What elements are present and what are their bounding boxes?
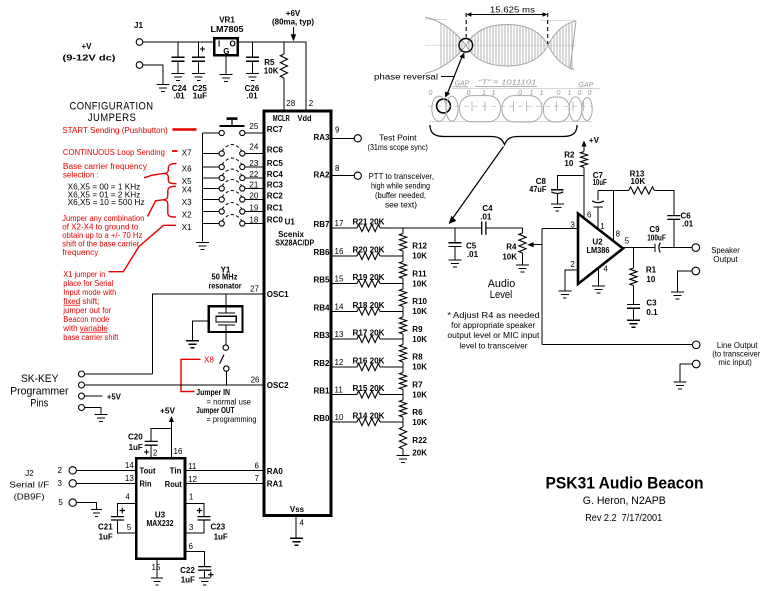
svg-text:base carrier shift: base carrier shift: [63, 333, 119, 342]
svg-text:1uF: 1uF: [181, 576, 195, 585]
wire R4 wiper to U2 and line out: [542, 229, 578, 345]
svg-text:resonator: resonator: [209, 282, 242, 291]
svg-text:(80ma, typ): (80ma, typ): [272, 18, 314, 27]
svg-text:21: 21: [249, 180, 258, 189]
svg-text:with variable: with variable: [62, 324, 108, 333]
svg-text:1uF: 1uF: [214, 533, 228, 542]
svg-text:(9-12V dc): (9-12V dc): [63, 54, 116, 63]
wire J1 return: [143, 65, 163, 84]
node J2 pin 3: [58, 479, 137, 488]
svg-text:3: 3: [189, 523, 194, 532]
node SK-KEY pin 4 (gnd): [79, 405, 101, 415]
svg-text:.01: .01: [174, 92, 186, 101]
svg-text:R17 20K: R17 20K: [353, 329, 385, 338]
svg-text:SX28AC/DP: SX28AC/DP: [275, 238, 315, 247]
capacitor C5: [449, 228, 479, 260]
svg-text:PSK31 Audio Beacon: PSK31 Audio Beacon: [546, 473, 704, 492]
svg-text:high while sending: high while sending: [371, 182, 430, 191]
svg-text:C5: C5: [466, 241, 477, 250]
wire red leader to selection text: [144, 173, 164, 177]
svg-text:RC5: RC5: [267, 159, 284, 168]
jumper row 18 wires and pads: [203, 215, 264, 227]
svg-text:X6,X5 = 10 = 500 Hz: X6,X5 = 10 = 500 Hz: [68, 198, 145, 207]
ground: [449, 260, 462, 267]
svg-text:+V: +V: [81, 42, 92, 51]
resistor R19 20K: [331, 273, 403, 287]
svg-text:10K: 10K: [412, 335, 427, 344]
svg-text:R10: R10: [412, 297, 427, 306]
resistor R9 10K: [399, 312, 427, 344]
svg-text:START Sending (Pushbutton): START Sending (Pushbutton): [62, 126, 168, 135]
wire red brace X6-X5: [164, 164, 177, 184]
resistor R16 20K: [331, 357, 403, 371]
svg-text:15: 15: [152, 563, 161, 572]
wire red brace X4-X3-X2: [163, 186, 176, 217]
svg-text:LM7805: LM7805: [211, 25, 245, 34]
svg-text:1uF: 1uF: [193, 92, 207, 101]
jumper X8: [220, 332, 229, 385]
U2 pin 8 wire: [613, 190, 620, 241]
node Speaker Output: [692, 244, 740, 264]
svg-text:50 MHz: 50 MHz: [212, 273, 238, 282]
svg-text:11: 11: [188, 462, 197, 471]
svg-text:G. Heron, N2APB: G. Heron, N2APB: [583, 495, 666, 507]
svg-text:RA0: RA0: [267, 467, 284, 476]
svg-text:10K: 10K: [412, 390, 427, 399]
op-amp U2 LM386: [578, 214, 623, 285]
svg-text:X7: X7: [182, 149, 192, 158]
svg-text:Serial I/F: Serial I/F: [9, 481, 49, 490]
svg-text:25: 25: [249, 122, 258, 131]
svg-text:C20: C20: [128, 433, 143, 442]
capacitor C7 10uF (pin 1 to pin 8): [592, 171, 607, 231]
svg-text:+5V: +5V: [160, 407, 176, 416]
svg-text:RA3: RA3: [313, 133, 330, 142]
jumper row 23 wires and pads: [203, 158, 264, 170]
svg-text:U1: U1: [285, 217, 296, 226]
svg-text:+5V: +5V: [107, 392, 122, 401]
svg-text:RB1: RB1: [313, 387, 330, 396]
U3 chip name label: [147, 511, 174, 528]
jumper row 24 wires and pads: [203, 145, 264, 157]
U1 chip name label: [275, 217, 315, 247]
svg-text:15: 15: [335, 275, 344, 284]
svg-text:Jumper any combination: Jumper any combination: [62, 214, 144, 223]
potentiometer R4 10K (Audio Level): [502, 228, 542, 265]
svg-text:2: 2: [58, 466, 63, 475]
resistor R5: [264, 42, 288, 111]
svg-text:1uF: 1uF: [129, 443, 143, 452]
svg-text:Tin: Tin: [170, 467, 182, 476]
svg-text:Beacon mode: Beacon mode: [63, 315, 110, 324]
SK-KEY header label: [10, 373, 69, 410]
capacitor C8 47uF: [529, 175, 584, 204]
ground: [558, 291, 571, 298]
ground: [186, 341, 199, 348]
svg-text:10K: 10K: [412, 307, 427, 316]
svg-text:RB0: RB0: [313, 414, 330, 423]
svg-text:J2: J2: [25, 469, 34, 478]
svg-text:1: 1: [540, 90, 544, 97]
svg-text:LM386: LM386: [587, 246, 611, 255]
svg-text:9: 9: [335, 126, 340, 135]
resistor R14 20K: [331, 412, 403, 426]
svg-text:(buffer needed,: (buffer needed,: [375, 191, 426, 200]
node J2 pin 5: [58, 498, 96, 509]
ground: [551, 204, 564, 211]
wire Line Output net: [542, 344, 692, 346]
resistor R22 20K: [399, 422, 427, 458]
svg-text:Test Point: Test Point: [379, 134, 417, 143]
jumper row 22 wires and pads: [203, 169, 264, 181]
wire red X7 leader: [172, 150, 178, 152]
svg-text:C23: C23: [211, 523, 226, 532]
svg-text:(DB9F): (DB9F): [14, 492, 45, 501]
jumper row 19 wires and pads: [203, 203, 264, 215]
svg-text:X3: X3: [182, 198, 192, 207]
node +6V supply arrow: [272, 9, 314, 41]
jumper row 20 wires and pads: [203, 191, 264, 203]
svg-text:MAX232: MAX232: [147, 519, 174, 528]
svg-text:13: 13: [335, 330, 344, 339]
svg-text:28: 28: [286, 99, 295, 108]
svg-text:10K: 10K: [412, 363, 427, 372]
U3 pin 13 (Rin): [125, 474, 152, 488]
svg-text:13: 13: [125, 474, 134, 483]
svg-text:Tout: Tout: [140, 467, 156, 476]
svg-text:R5: R5: [264, 58, 275, 67]
resistor R6 10K: [399, 395, 427, 427]
jumper row 25 wires and pads: [203, 130, 264, 135]
wire red leader to jumper-any text: [148, 200, 163, 217]
svg-text:2: 2: [153, 449, 158, 458]
svg-text:RC2: RC2: [267, 192, 284, 201]
ground: [199, 578, 211, 585]
resistor R10 10K: [399, 284, 427, 317]
svg-text:26: 26: [251, 375, 260, 384]
svg-text:PTT to transceiver,: PTT to transceiver,: [369, 172, 434, 181]
svg-text:R18 20K: R18 20K: [353, 301, 385, 310]
svg-text:RA1: RA1: [267, 480, 284, 489]
svg-text:14: 14: [125, 461, 134, 470]
svg-text:R15 20K: R15 20K: [353, 384, 385, 393]
annotation jumper in/out note: [196, 388, 256, 424]
ground: [94, 415, 107, 422]
svg-text:place for Serial: place for Serial: [63, 279, 113, 288]
svg-text:RB3: RB3: [313, 331, 330, 340]
ground: [290, 538, 303, 545]
svg-text:6: 6: [587, 211, 592, 220]
svg-text:.01: .01: [480, 213, 492, 222]
node +5V supply for U3: [160, 407, 176, 459]
svg-text:for appropriate speaker: for appropriate speaker: [451, 321, 535, 330]
svg-text:12: 12: [335, 358, 344, 367]
ground: [516, 265, 529, 272]
svg-text:X6: X6: [182, 164, 192, 173]
svg-text:R1: R1: [646, 265, 657, 274]
svg-text:12: 12: [188, 475, 197, 484]
wire OSC1 net: [152, 294, 264, 374]
svg-text:RA2: RA2: [313, 170, 330, 179]
wire +V rail: [143, 42, 306, 111]
capacitor C25: [192, 42, 207, 101]
resistor R2 10 and +V feed (pin 6): [564, 136, 599, 220]
connector J1: [134, 21, 143, 68]
svg-text:jumper out for: jumper out for: [62, 306, 111, 315]
svg-text:2: 2: [309, 99, 314, 108]
capacitor C4 (series): [480, 204, 522, 235]
svg-text:VR1: VR1: [219, 16, 235, 25]
svg-text:Rev 2.2 7/17/2001: Rev 2.2 7/17/2001: [585, 512, 662, 524]
svg-text:Jumper IN: Jumper IN: [196, 388, 230, 397]
svg-text:JUMPERS: JUMPERS: [88, 112, 137, 124]
svg-text:4: 4: [300, 519, 305, 528]
svg-text:Vss: Vss: [290, 505, 305, 514]
svg-text:19: 19: [249, 203, 258, 212]
svg-text:C21: C21: [98, 523, 113, 532]
resistor R15 20K: [331, 384, 403, 398]
PSK31 waveform sketch image: [374, 5, 600, 224]
ground: [397, 456, 410, 463]
title PSK31 Audio Beacon: [546, 473, 704, 524]
ground: [91, 510, 102, 517]
resistor R20 20K: [331, 246, 403, 260]
pushbutton START switch: [220, 119, 245, 126]
U3 pin 11 (Tin) wire to U1 RA0: [170, 462, 264, 476]
annotation X1 jumper note: [62, 270, 119, 342]
svg-text:18: 18: [249, 215, 258, 224]
ground: [220, 75, 233, 82]
svg-text:.01: .01: [467, 250, 479, 259]
capacitor C26: [245, 42, 260, 101]
svg-text:SK-KEY: SK-KEY: [21, 373, 59, 385]
svg-text:mic input): mic input): [718, 358, 752, 367]
svg-text:X2: X2: [182, 211, 192, 220]
svg-text:R7: R7: [412, 380, 423, 389]
resistor R12 10K: [399, 228, 427, 261]
svg-text:Vdd: Vdd: [298, 114, 312, 123]
svg-text:20K: 20K: [412, 449, 427, 458]
ground: [671, 292, 684, 299]
U2 pin 2 wire and ground: [565, 260, 578, 291]
svg-text:RC0: RC0: [267, 216, 284, 225]
svg-text:RB4: RB4: [313, 304, 330, 313]
svg-text:X4: X4: [182, 185, 192, 194]
op-amp U1 Scenix SX28AC/DP microcontroller body: [264, 111, 331, 516]
svg-text:23: 23: [249, 159, 258, 168]
svg-text:7: 7: [255, 474, 260, 483]
resonator Y1 50 MHz: [209, 265, 243, 332]
svg-text:24: 24: [249, 143, 258, 152]
svg-text:16: 16: [174, 447, 183, 456]
wire red X8 leader: [181, 359, 201, 391]
resistor R17 20K: [331, 329, 403, 343]
svg-text:10K: 10K: [264, 67, 279, 76]
svg-text:RB2: RB2: [313, 359, 330, 368]
svg-text:100uF: 100uF: [647, 234, 666, 243]
resistor R1 10: [630, 248, 657, 304]
svg-text:Level: Level: [490, 289, 513, 301]
svg-text:10K: 10K: [412, 279, 427, 288]
node line return and ground: [680, 360, 700, 381]
svg-text:5: 5: [625, 236, 630, 245]
jumper ground bus wire: [202, 133, 204, 242]
svg-text:20: 20: [249, 191, 258, 200]
svg-text:R16 20K: R16 20K: [353, 357, 385, 366]
svg-text:R22: R22: [412, 436, 427, 445]
svg-text:R14 20K: R14 20K: [353, 412, 385, 421]
svg-text:8: 8: [616, 230, 621, 239]
svg-text:X1: X1: [182, 223, 192, 232]
svg-text:OSC1: OSC1: [267, 290, 289, 299]
svg-text:R8: R8: [412, 353, 423, 362]
svg-text:0: 0: [429, 90, 433, 97]
svg-text:6: 6: [189, 542, 194, 551]
ground: [246, 74, 259, 81]
svg-text:0.1: 0.1: [646, 308, 658, 317]
resistor R8 10K: [399, 339, 427, 372]
svg-text:level to transceiver: level to transceiver: [460, 341, 528, 350]
svg-text:R9: R9: [412, 325, 423, 334]
svg-text:10: 10: [335, 413, 344, 422]
svg-text:X8: X8: [204, 356, 214, 365]
svg-text:R12: R12: [412, 242, 427, 251]
svg-text:10K: 10K: [502, 253, 517, 262]
svg-text:RB7: RB7: [313, 220, 330, 229]
svg-text:47uF: 47uF: [529, 185, 546, 194]
svg-text:RC3: RC3: [267, 181, 284, 190]
svg-text:G: G: [223, 47, 229, 56]
svg-text:= programming: = programming: [207, 415, 257, 424]
capacitor C21: [98, 493, 136, 542]
U2 pin 5 output wire: [623, 236, 655, 247]
svg-text:1: 1: [600, 222, 605, 231]
svg-text:Input mode with: Input mode with: [63, 288, 116, 297]
svg-text:C3: C3: [646, 299, 657, 308]
svg-text:Jumper OUT: Jumper OUT: [196, 406, 234, 415]
svg-text:phase reversal: phase reversal: [374, 73, 438, 82]
ground: [592, 286, 605, 293]
svg-text:RB6: RB6: [313, 248, 330, 257]
U2 pin 4 wire and ground: [599, 264, 609, 285]
U3 pin 15 ground stub: [152, 559, 161, 578]
resistor R11 10K: [399, 256, 427, 288]
node Line Output: [692, 341, 760, 367]
svg-text:11: 11: [335, 386, 344, 395]
ground: [196, 243, 209, 250]
U1 Vss pin and ground: [290, 505, 305, 538]
svg-text:Programmer: Programmer: [10, 386, 69, 398]
svg-text:RC4: RC4: [267, 170, 284, 179]
svg-text:CONTINUOUS Loop Sending: CONTINUOUS Loop Sending: [63, 148, 165, 157]
ground: [627, 320, 640, 327]
capacitor C20: [128, 429, 171, 459]
svg-text:* Adjust R4 as needed: * Adjust R4 as needed: [447, 311, 539, 320]
ground: [151, 578, 163, 585]
svg-text:Rout: Rout: [165, 480, 182, 489]
svg-text:2: 2: [570, 260, 575, 269]
node Test Point (RA3): [331, 134, 428, 153]
node SK-KEY pin 2: [79, 382, 85, 388]
node J2 pin 2: [58, 466, 137, 475]
svg-text:R21 20K: R21 20K: [353, 218, 385, 227]
svg-text:10: 10: [564, 159, 573, 168]
svg-text:OSC2: OSC2: [267, 381, 289, 390]
U3 pin 14 (Tout): [125, 461, 156, 476]
svg-text:frequency: frequency: [62, 248, 98, 257]
capacitor C9 100uF (series output): [647, 225, 692, 252]
wire resonator case lead: [192, 321, 208, 340]
node SK-KEY pin 3 (+5V): [79, 392, 122, 401]
svg-text:8: 8: [335, 164, 340, 173]
svg-text:R19 20K: R19 20K: [353, 273, 385, 282]
svg-text:15.625 ms: 15.625 ms: [490, 5, 535, 14]
svg-text:see text): see text): [385, 200, 417, 209]
svg-text:RC1: RC1: [267, 204, 284, 213]
svg-text:0: 0: [557, 90, 561, 97]
annotation jumper any combination: [62, 214, 144, 257]
svg-text:I: I: [218, 40, 220, 49]
svg-text:10K: 10K: [412, 252, 427, 261]
ground: [157, 85, 170, 92]
svg-text:“T” = 1011101: “T” = 1011101: [478, 80, 536, 87]
svg-text:(31ms scope sync): (31ms scope sync): [368, 143, 429, 152]
annotation base carrier frequency selection: [63, 162, 147, 180]
svg-text:14: 14: [335, 303, 344, 312]
svg-text:10uF: 10uF: [593, 178, 607, 187]
ground: [172, 74, 185, 81]
svg-text:4: 4: [603, 264, 608, 273]
svg-text:Rin: Rin: [140, 480, 152, 489]
svg-text:27: 27: [250, 285, 259, 294]
svg-text:CONFIGURATION: CONFIGURATION: [70, 101, 154, 113]
svg-text:16: 16: [335, 247, 344, 256]
svg-text:R11: R11: [412, 269, 427, 278]
svg-text:4: 4: [125, 493, 130, 502]
capacitor C3 0.1: [627, 299, 658, 320]
svg-text:1uF: 1uF: [99, 533, 113, 542]
svg-text:6: 6: [255, 462, 260, 471]
annotation X6 X5 table: [68, 182, 145, 207]
resistor R13 10K feedback: [598, 169, 674, 215]
svg-text:R6: R6: [412, 408, 423, 417]
svg-text:R20 20K: R20 20K: [353, 246, 385, 255]
svg-text:1: 1: [568, 90, 572, 97]
annotation Audio Level: [488, 278, 516, 301]
jumper row 21 wires and pads: [203, 180, 264, 192]
ground: [192, 74, 205, 81]
svg-text:R4: R4: [506, 242, 517, 251]
svg-text:3: 3: [570, 220, 575, 229]
resistor R18 20K: [331, 301, 403, 315]
svg-text:C22: C22: [180, 566, 195, 575]
svg-text:RC7: RC7: [267, 125, 284, 134]
svg-text:fixed shift;: fixed shift;: [63, 297, 99, 306]
regulator VR1 LM7805: [211, 16, 245, 75]
svg-text:3: 3: [58, 479, 63, 488]
capacitor C24: [172, 42, 188, 101]
svg-text:Output: Output: [713, 255, 738, 264]
svg-text:.01: .01: [682, 219, 694, 228]
svg-text:1: 1: [189, 493, 194, 502]
svg-text:X1 jumper in: X1 jumper in: [63, 270, 105, 279]
svg-text:22: 22: [249, 170, 258, 179]
U3 pin 12 (Rout) wire to U1 RA1: [165, 475, 264, 489]
wire red START leader: [173, 128, 197, 131]
resistor R21 20K: [331, 218, 403, 232]
node speaker return and ground: [678, 267, 700, 291]
svg-text:output level or MIC input: output level or MIC input: [447, 331, 540, 340]
